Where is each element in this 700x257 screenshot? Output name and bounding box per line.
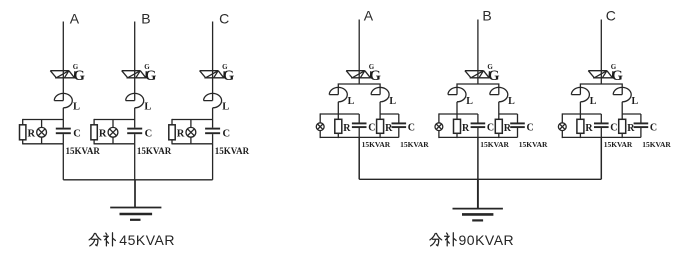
top rail group 2 (phase B, 90KVAR) bbox=[499, 113, 518, 115]
top rail of capacitor group (phase C) bbox=[172, 119, 213, 121]
svg-text:R: R bbox=[177, 128, 185, 139]
reactor L branch 1 (phase B, 90KVAR) bbox=[448, 87, 466, 101]
discharge lamp (phase C) bbox=[186, 120, 196, 145]
label G (phase C, 90KVAR) bbox=[611, 63, 624, 84]
wire: group to neutral bus (phase B, 90KVAR) bbox=[477, 137, 479, 179]
svg-text:G: G bbox=[369, 68, 381, 84]
svg-text:L: L bbox=[348, 96, 355, 107]
svg-text:G: G bbox=[611, 68, 623, 84]
svg-text:G: G bbox=[145, 68, 157, 84]
capacitor C branch 2 (phase B, 90KVAR) bbox=[510, 114, 525, 137]
wire: capacitor group to neutral bus (phase C) bbox=[212, 144, 214, 180]
svg-text:C: C bbox=[610, 122, 617, 133]
svg-text:C: C bbox=[73, 128, 81, 139]
svg-text:L: L bbox=[590, 96, 597, 107]
svg-text:L: L bbox=[222, 102, 229, 113]
wire: phase A drop from supply through fuse-switch (90KVAR) bbox=[358, 20, 360, 85]
wire: reactor 1 to rail (phase C) bbox=[579, 102, 581, 114]
neutral bus (90KVAR bank) bbox=[359, 178, 601, 180]
bottom rail of capacitor group (phase B) bbox=[94, 143, 135, 145]
reactor L (phase B, 45KVAR bank) bbox=[126, 93, 144, 107]
wire: phase B drop from supply through fuse-switch (90KVAR) bbox=[477, 20, 479, 85]
svg-text:R: R bbox=[585, 123, 593, 134]
fuse-switch G (phase C, 45KVAR bank) bbox=[200, 71, 225, 78]
bottom rail of capacitor group (phase C) bbox=[172, 143, 213, 145]
svg-text:R: R bbox=[627, 123, 635, 134]
svg-text:15KVAR: 15KVAR bbox=[480, 140, 509, 149]
top rail group 2 (phase C, 90KVAR) bbox=[622, 113, 641, 115]
discharge lamp (phase C, 90KVAR) bbox=[558, 113, 566, 138]
discharge resistor R branch 1 (phase A, 90KVAR) bbox=[335, 114, 342, 138]
fuse-switch G (phase C, 90KVAR bank) bbox=[588, 71, 613, 78]
svg-text:L: L bbox=[632, 96, 639, 107]
wire: group to neutral bus (phase C, 90KVAR) bbox=[600, 137, 602, 179]
label G (phase A) bbox=[73, 63, 86, 84]
svg-text:L: L bbox=[144, 102, 151, 113]
bottom rail (phase A, 90KVAR) bbox=[320, 136, 399, 138]
reactor L branch 2 (phase A, 90KVAR) bbox=[371, 87, 389, 101]
discharge resistor R (phase B) bbox=[91, 119, 97, 144]
discharge resistor R (phase A) bbox=[20, 119, 26, 144]
wire: neutral bus to ground (45KVAR bank) bbox=[134, 180, 136, 208]
capacitor C branch 2 (phase C, 90KVAR) bbox=[634, 114, 649, 137]
svg-text:L: L bbox=[389, 96, 396, 107]
svg-text:R: R bbox=[504, 123, 512, 134]
reactor L (phase A, 45KVAR bank) bbox=[54, 93, 72, 107]
capacitor C (phase A, 45KVAR bank) bbox=[56, 120, 71, 144]
svg-text:C: C bbox=[219, 11, 229, 27]
svg-text:90KVAR: 90KVAR bbox=[459, 232, 515, 248]
svg-text:L: L bbox=[466, 96, 473, 107]
wire: reactor to capacitor group (phase B) bbox=[134, 108, 136, 120]
svg-text:15KVAR: 15KVAR bbox=[66, 146, 101, 156]
wire: capacitor group to neutral bus (phase B) bbox=[134, 144, 136, 180]
reactor L (phase C, 45KVAR bank) bbox=[204, 93, 222, 107]
wire: neutral bus to ground (90KVAR bank) bbox=[477, 179, 479, 208]
capacitor C (phase C, 45KVAR bank) bbox=[205, 120, 220, 144]
discharge lamp (phase B, 90KVAR) bbox=[435, 113, 443, 138]
top rail group 2 (phase A, 90KVAR) bbox=[380, 113, 399, 115]
reactor L branch 1 (phase A, 90KVAR) bbox=[329, 87, 347, 101]
wire: branch splitter (phase C, 90KVAR) bbox=[580, 84, 622, 95]
fuse-switch G (phase A, 90KVAR bank) bbox=[346, 71, 371, 78]
wire: reactor to capacitor group (phase C) bbox=[212, 108, 214, 120]
svg-text:A: A bbox=[70, 11, 80, 27]
top rail group 1 (phase B, 90KVAR) bbox=[439, 113, 478, 115]
svg-text:B: B bbox=[482, 8, 491, 24]
discharge resistor R branch 2 (phase C, 90KVAR) bbox=[619, 114, 626, 138]
svg-text:R: R bbox=[28, 128, 36, 139]
wire: branch splitter (phase A, 90KVAR) bbox=[338, 84, 380, 95]
fuse-switch G (phase B, 90KVAR bank) bbox=[465, 71, 490, 78]
wire: branch splitter (phase B, 90KVAR) bbox=[457, 84, 499, 95]
svg-text:15KVAR: 15KVAR bbox=[137, 146, 172, 156]
svg-text:R: R bbox=[385, 123, 393, 134]
caption 分补90KVAR bbox=[430, 232, 514, 248]
bottom rail of capacitor group (phase A) bbox=[23, 143, 64, 145]
svg-text:C: C bbox=[408, 122, 415, 133]
capacitor C branch 2 (phase A, 90KVAR) bbox=[392, 114, 407, 137]
svg-text:G: G bbox=[223, 68, 235, 84]
svg-text:15KVAR: 15KVAR bbox=[400, 140, 429, 149]
wire: reactor 2 to rail (phase B) bbox=[498, 102, 500, 114]
svg-text:R: R bbox=[99, 128, 107, 139]
bottom rail (phase C, 90KVAR) bbox=[562, 136, 641, 138]
discharge lamp (phase B) bbox=[108, 120, 118, 145]
svg-text:C: C bbox=[527, 122, 534, 133]
svg-text:B: B bbox=[141, 11, 150, 27]
ground (45KVAR bank) bbox=[110, 208, 161, 220]
svg-text:15KVAR: 15KVAR bbox=[519, 140, 548, 149]
top rail of capacitor group (phase A) bbox=[23, 119, 64, 121]
svg-text:C: C bbox=[368, 122, 375, 133]
svg-text:45KVAR: 45KVAR bbox=[119, 232, 175, 248]
svg-text:C: C bbox=[223, 128, 231, 139]
reactor L branch 1 (phase C, 90KVAR) bbox=[571, 87, 589, 101]
label G (phase A, 90KVAR) bbox=[369, 63, 382, 84]
reactor L branch 2 (phase B, 90KVAR) bbox=[490, 87, 508, 101]
svg-text:G: G bbox=[488, 68, 500, 84]
discharge lamp (phase A) bbox=[37, 120, 47, 145]
svg-text:L: L bbox=[508, 96, 515, 107]
svg-text:L: L bbox=[73, 102, 80, 113]
wire: reactor 1 to rail (phase B) bbox=[456, 102, 458, 114]
svg-text:R: R bbox=[343, 123, 351, 134]
wire: group to neutral bus (phase A, 90KVAR) bbox=[358, 137, 360, 179]
capacitor C branch 1 (phase A, 90KVAR) bbox=[352, 114, 367, 137]
neutral bus (45KVAR bank) bbox=[63, 179, 212, 181]
label G (phase B, 90KVAR) bbox=[487, 63, 500, 84]
fuse-switch G (phase A, 45KVAR bank) bbox=[50, 71, 75, 78]
top rail group 1 (phase A, 90KVAR) bbox=[320, 113, 359, 115]
svg-text:A: A bbox=[364, 8, 374, 24]
reactor L branch 2 (phase C, 90KVAR) bbox=[613, 87, 631, 101]
discharge lamp (phase A, 90KVAR) bbox=[316, 113, 324, 138]
capacitor C (phase B, 45KVAR bank) bbox=[127, 120, 142, 144]
fuse-switch G (phase B, 45KVAR bank) bbox=[122, 71, 147, 78]
wire: reactor 2 to rail (phase C) bbox=[621, 102, 623, 114]
svg-text:C: C bbox=[145, 128, 153, 139]
wire: phase A drop from supply to reactor bbox=[62, 22, 64, 101]
top rail group 1 (phase C, 90KVAR) bbox=[562, 113, 601, 115]
label G (phase B) bbox=[144, 63, 157, 84]
discharge resistor R branch 2 (phase B, 90KVAR) bbox=[495, 114, 502, 138]
svg-text:15KVAR: 15KVAR bbox=[604, 140, 633, 149]
discharge resistor R branch 1 (phase C, 90KVAR) bbox=[577, 114, 584, 138]
caption 分补45KVAR bbox=[89, 232, 175, 248]
svg-text:G: G bbox=[73, 68, 85, 84]
discharge resistor R branch 1 (phase B, 90KVAR) bbox=[454, 114, 461, 138]
discharge resistor R branch 2 (phase A, 90KVAR) bbox=[377, 114, 384, 138]
discharge resistor R (phase C) bbox=[169, 119, 175, 144]
wire: reactor 2 to rail (phase A) bbox=[379, 102, 381, 114]
svg-text:15KVAR: 15KVAR bbox=[362, 140, 391, 149]
ground (90KVAR bank) bbox=[453, 209, 503, 221]
wire: reactor to capacitor group (phase A) bbox=[62, 108, 64, 120]
wire: phase B drop from supply to reactor bbox=[134, 22, 136, 101]
svg-text:C: C bbox=[606, 8, 616, 24]
svg-text:R: R bbox=[462, 123, 470, 134]
label G (phase C) bbox=[222, 63, 235, 84]
bottom rail (phase B, 90KVAR) bbox=[439, 136, 518, 138]
svg-text:15KVAR: 15KVAR bbox=[642, 140, 671, 149]
wire: phase C drop from supply through fuse-switch (90KVAR) bbox=[600, 20, 602, 85]
top rail of capacitor group (phase B) bbox=[94, 119, 135, 121]
capacitor C branch 1 (phase B, 90KVAR) bbox=[471, 114, 486, 137]
svg-text:15KVAR: 15KVAR bbox=[215, 146, 250, 156]
capacitor C branch 1 (phase C, 90KVAR) bbox=[594, 114, 609, 137]
wire: reactor 1 to rail (phase A) bbox=[337, 102, 339, 114]
wire: capacitor group to neutral bus (phase A) bbox=[62, 144, 64, 180]
svg-text:C: C bbox=[487, 122, 494, 133]
svg-text:C: C bbox=[650, 122, 657, 133]
wire: phase C drop from supply to reactor bbox=[212, 22, 214, 101]
